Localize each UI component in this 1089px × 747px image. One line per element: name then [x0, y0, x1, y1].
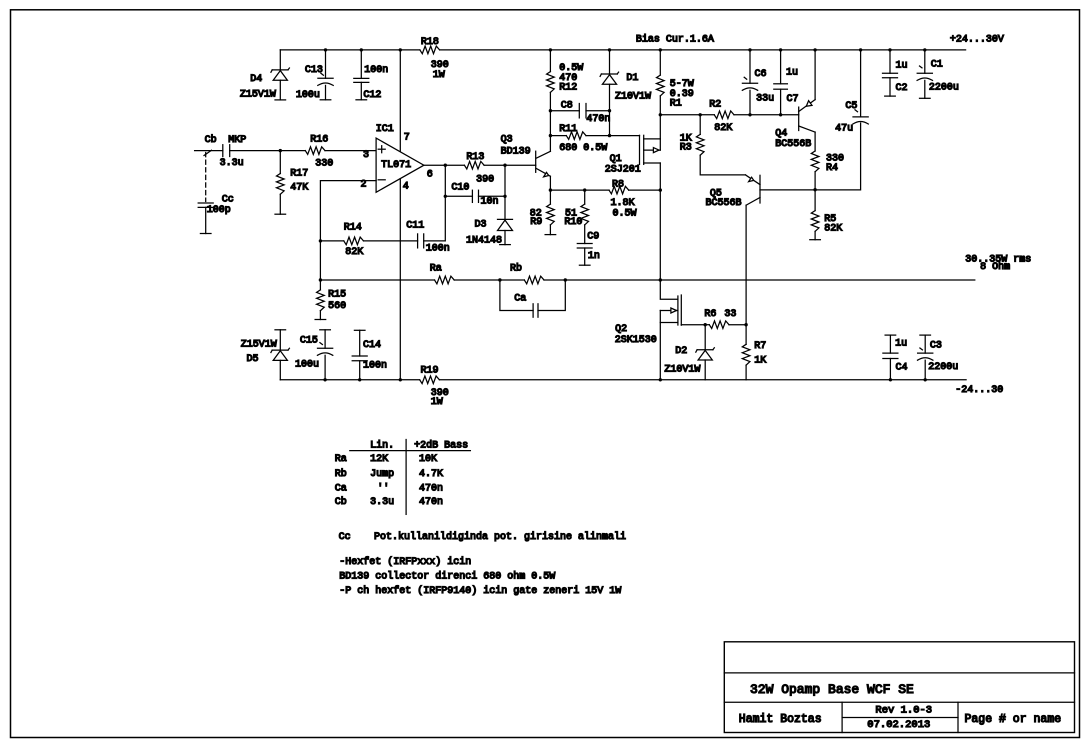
wire C12 bottom — [360, 82, 362, 99]
capacitor C12 — [354, 77, 369, 79]
node D3 tee — [503, 195, 506, 198]
wire Q1 drain down — [659, 163, 661, 280]
svg-text:1u: 1u — [895, 338, 907, 349]
Q1 body stub — [644, 149, 661, 151]
svg-text:Pot.kullanildiginda pot. giris: Pot.kullanildiginda pot. girisine alinma… — [374, 531, 626, 543]
wire R10 to C9 — [584, 225, 586, 244]
svg-text:R2: R2 — [709, 100, 721, 111]
transistor Q3 BD139 base bar — [535, 151, 537, 172]
wire R4 bottom — [814, 172, 816, 190]
Q4 emitter — [799, 100, 815, 112]
svg-text:C7: C7 — [787, 94, 799, 105]
wire pin 7 — [399, 50, 401, 152]
transistor Q5 BC556B base bar — [759, 175, 761, 203]
capacitor C8 — [578, 104, 580, 118]
wire R15 bottom — [319, 311, 321, 320]
node R12 rail — [549, 48, 552, 51]
wire Q5 base line — [760, 123, 861, 190]
svg-text:Q2: Q2 — [615, 324, 627, 335]
terminator C13 — [320, 99, 331, 101]
-V rail wire right — [439, 379, 966, 381]
svg-text:Ra: Ra — [335, 454, 347, 465]
Q4 collector — [799, 126, 815, 132]
terminator C15 — [320, 329, 331, 331]
resistor R12 — [547, 72, 555, 93]
node R10 top — [583, 188, 586, 191]
terminator C12 — [356, 99, 367, 101]
resistor R10 — [584, 190, 586, 204]
wire D3 branch top — [504, 165, 506, 196]
capacitor C9 — [577, 243, 592, 245]
resistor R6 — [709, 321, 729, 329]
svg-text:D1: D1 — [626, 73, 638, 84]
svg-text:470n: 470n — [419, 483, 443, 494]
svg-text:D2: D2 — [675, 346, 687, 357]
svg-text:R14: R14 — [344, 223, 362, 234]
wire C4 bottom — [889, 359, 891, 380]
wire R13 to Q3 base — [484, 164, 536, 166]
svg-text:Ca: Ca — [335, 483, 347, 494]
svg-text:4: 4 — [403, 181, 409, 192]
svg-text:-P ch hexfet (IRFP9140) icin g: -P ch hexfet (IRFP9140) icin gate zeneri… — [339, 585, 621, 597]
svg-text:BC556B: BC556B — [706, 198, 742, 209]
node R11 left — [549, 134, 552, 137]
svg-text:1n: 1n — [588, 251, 600, 262]
svg-text:330: 330 — [315, 158, 333, 169]
node C13 — [324, 48, 327, 51]
svg-text:C14: C14 — [363, 340, 381, 351]
svg-text:Cb: Cb — [205, 134, 217, 146]
svg-text:Lin.: Lin. — [370, 440, 394, 452]
Q1 body arrow — [653, 148, 659, 153]
node input junction — [279, 149, 282, 152]
svg-text:D3: D3 — [475, 220, 487, 231]
node R3 top — [699, 113, 702, 116]
node C6 bottom — [748, 113, 751, 116]
node C10 tee — [444, 195, 447, 198]
svg-text:Z15V1W: Z15V1W — [240, 90, 276, 101]
svg-text:33: 33 — [724, 309, 736, 320]
wire pin2 — [320, 181, 376, 241]
svg-text:Ca: Ca — [514, 294, 526, 305]
wire Q4 emitter to rail — [814, 50, 816, 100]
terminator R5 — [810, 239, 821, 241]
capacitor C11 — [417, 234, 419, 248]
terminator D5 — [275, 329, 286, 331]
svg-text:0.5W: 0.5W — [613, 209, 637, 220]
svg-text:470n: 470n — [419, 497, 443, 508]
capacitor C13 — [318, 77, 333, 79]
svg-text:R17: R17 — [290, 169, 308, 180]
svg-text:Cb: Cb — [335, 496, 347, 508]
C5 polarity tick — [855, 110, 858, 112]
wire R3 to Q5 emitter — [700, 155, 745, 175]
wire Q2 gate — [681, 324, 705, 326]
title block frame — [724, 642, 1074, 733]
capacitor Ca — [532, 304, 534, 317]
wire R2 right — [734, 114, 799, 116]
terminator C14 — [354, 329, 365, 331]
node Ca left — [498, 278, 501, 281]
resistor R15 — [319, 280, 321, 290]
node Ca right — [564, 278, 567, 281]
node R2 branch — [659, 113, 662, 116]
wire D3 bottom — [504, 231, 506, 245]
node C4 rail — [889, 378, 892, 381]
node C15 rail — [323, 378, 326, 381]
svg-text:3: 3 — [363, 150, 369, 161]
capacitor C6 — [748, 48, 751, 51]
svg-text:D5: D5 — [247, 354, 259, 365]
Q1 drain stub — [644, 162, 661, 164]
capacitor C7 — [779, 48, 782, 51]
svg-text:R8: R8 — [612, 179, 624, 190]
Q2 body arrow — [671, 308, 677, 313]
svg-text:R1: R1 — [670, 98, 682, 109]
C1 polarity tick — [920, 66, 923, 68]
node R9 top — [549, 188, 552, 191]
svg-text:560: 560 — [328, 301, 346, 312]
Q5 emitter arrow — [749, 177, 754, 181]
resistor R14 — [344, 237, 364, 245]
resistor R16 — [305, 147, 325, 155]
node D1 rail — [608, 48, 611, 51]
svg-text:1u: 1u — [786, 68, 798, 79]
svg-text:R7: R7 — [754, 341, 766, 352]
svg-text:82K: 82K — [714, 123, 732, 134]
svg-text:Rev 1.0-3: Rev 1.0-3 — [875, 704, 932, 716]
node opamp output — [444, 164, 447, 167]
wire Q5 collector down — [745, 205, 747, 325]
Q3 emitter arrow — [544, 172, 549, 177]
node D2 top — [704, 323, 707, 326]
wire Cc bottom — [205, 207, 207, 233]
svg-text:100u: 100u — [295, 360, 319, 371]
diode D4 Z15V1W — [272, 69, 288, 71]
diode D3 1N4148 — [498, 218, 513, 220]
wire feedback node down — [319, 241, 321, 280]
title block hline1 — [724, 672, 1074, 674]
diode D1 Z10V1W — [601, 73, 617, 75]
wire D2 bottom — [704, 360, 706, 380]
svg-text:10K: 10K — [419, 454, 437, 465]
svg-text:Ra: Ra — [430, 263, 442, 274]
capacitor Cb MKP — [222, 145, 224, 157]
svg-text:680 0.5W: 680 0.5W — [559, 143, 607, 154]
node D4 rail corner — [279, 50, 281, 70]
input tick — [204, 150, 212, 155]
svg-text:-Hexfet (IRFPxxx) icin: -Hexfet (IRFPxxx) icin — [339, 556, 471, 568]
svg-text:C3: C3 — [930, 341, 942, 352]
svg-text:100n: 100n — [364, 65, 388, 76]
svg-text:1u: 1u — [896, 61, 908, 72]
title block vline right — [957, 702, 959, 732]
svg-text:R18: R18 — [421, 37, 439, 48]
wire C10 left — [445, 195, 472, 197]
output line left — [320, 279, 434, 281]
wire C10 right — [479, 195, 506, 197]
resistor R5 — [814, 190, 816, 211]
svg-text:390: 390 — [476, 174, 494, 185]
capacitor C4 — [889, 335, 891, 353]
terminator C4 — [885, 334, 896, 336]
svg-text:Z10V1W: Z10V1W — [664, 364, 700, 375]
terminator R9 — [545, 234, 556, 236]
svg-text:Bias Cur.1.6A: Bias Cur.1.6A — [636, 34, 714, 46]
Q5 collector — [746, 198, 760, 206]
wire R5 bottom — [814, 231, 816, 239]
svg-text:Z10V1W: Z10V1W — [615, 91, 651, 102]
title block rev/date divider — [842, 717, 958, 719]
terminator C3 — [920, 334, 931, 336]
svg-text:47K: 47K — [290, 183, 308, 194]
resistor R13 — [464, 161, 484, 169]
resistor R18 — [420, 46, 440, 54]
svg-text:82K: 82K — [345, 247, 363, 258]
resistor R7 — [745, 325, 747, 345]
title block hline2 — [724, 701, 1074, 703]
capacitor C10 — [471, 190, 473, 202]
node output Q1/Q2 — [659, 278, 662, 281]
wire C2 bottom — [889, 78, 891, 96]
wire Q2 drain — [660, 280, 678, 299]
op-amp U1 TL071 — [376, 138, 424, 192]
svg-text:100n: 100n — [363, 361, 387, 372]
C13 polarity tick — [321, 73, 324, 75]
resistor R3 — [699, 115, 701, 135]
terminator Cc — [200, 233, 211, 235]
dashed wire to Cc — [205, 153, 207, 202]
resistor R9 — [549, 190, 551, 204]
svg-text:1W: 1W — [433, 70, 445, 81]
svg-text:3.3u: 3.3u — [220, 158, 244, 169]
transistor Q2 2SK1530 channel bar — [677, 296, 679, 325]
svg-text:BD139: BD139 — [501, 146, 531, 157]
svg-text:Page # or name: Page # or name — [965, 713, 1062, 726]
Q1 source stub — [644, 138, 661, 140]
svg-text:1N4148: 1N4148 — [466, 236, 502, 247]
svg-text:C2: C2 — [896, 83, 908, 94]
capacitor C1 — [924, 50, 926, 73]
wire R6 right — [729, 324, 746, 326]
wire R17 bottom — [279, 194, 281, 214]
node R4/R5/C5 — [813, 188, 816, 191]
Q3 collector — [536, 151, 550, 158]
wire R6 left — [705, 324, 709, 326]
svg-text:R15: R15 — [328, 290, 346, 301]
Q3 emitter — [536, 168, 550, 176]
svg-text:C8: C8 — [561, 101, 573, 112]
resistor R2 — [714, 111, 734, 119]
wire C14 bottom — [359, 361, 361, 380]
Q4 emitter arrow — [806, 101, 812, 107]
node R1 rail — [659, 48, 662, 51]
wire Ra to Ca node — [454, 279, 500, 281]
wire D5 bottom — [279, 360, 281, 379]
svg-text:Cc: Cc — [222, 194, 234, 205]
svg-text:R9: R9 — [530, 217, 542, 228]
wire pin 4 — [399, 179, 401, 380]
capacitor C3 — [924, 335, 926, 353]
svg-text:7: 7 — [404, 133, 410, 144]
wire R14 left — [320, 240, 343, 242]
wire Q4 collector to R4 — [814, 132, 816, 151]
svg-text:R12: R12 — [559, 82, 577, 93]
svg-text:D4: D4 — [250, 74, 262, 85]
svg-text:100p: 100p — [207, 205, 231, 216]
capacitor C14 — [359, 330, 361, 356]
resistor Rb — [524, 276, 544, 284]
node C8 left — [549, 109, 552, 112]
svg-text:R10: R10 — [564, 217, 582, 228]
opamp plus sign — [378, 148, 385, 150]
capacitor C15 — [324, 330, 326, 348]
wire R2 left — [660, 114, 714, 116]
wire Q3 emitter down — [549, 176, 551, 190]
wire node to R16 — [280, 150, 305, 152]
-V rail wire left — [280, 379, 419, 381]
resistor Ra — [435, 276, 455, 284]
svg-text:R11: R11 — [559, 124, 577, 135]
svg-text:+24...30V: +24...30V — [950, 35, 1004, 46]
wire R1 to Q1 source — [659, 96, 661, 150]
transistor Q1 2SJ201 gate bar — [639, 135, 641, 164]
wire C8 right — [586, 110, 610, 112]
wire emitter line — [550, 189, 609, 191]
wire C9 bottom — [584, 248, 586, 265]
node C2 rail — [888, 48, 891, 51]
Ca loop left — [500, 280, 533, 311]
wire Rb right — [544, 279, 565, 281]
svg-text:2200u: 2200u — [928, 362, 958, 373]
resistor R8 — [609, 186, 629, 194]
svg-text:2SJ201: 2SJ201 — [605, 165, 641, 176]
C15 polarity tick — [320, 343, 323, 345]
svg-text:BD139 collector direnci 680 oh: BD139 collector direnci 680 ohm 0.5W — [339, 571, 555, 583]
svg-text:TL071: TL071 — [381, 160, 411, 171]
wire C11 to output branch — [424, 165, 446, 241]
wire Q1 gate — [610, 135, 640, 137]
capacitor C5 — [853, 116, 868, 118]
wire C1 bottom — [924, 80, 926, 98]
wire opamp output — [424, 164, 465, 166]
terminator R15 — [315, 319, 326, 321]
svg-text:4.7K: 4.7K — [419, 469, 443, 480]
node feedback/output — [319, 278, 322, 281]
svg-text:R19: R19 — [421, 365, 439, 376]
svg-text:100n: 100n — [426, 244, 450, 255]
svg-text:R6: R6 — [704, 309, 716, 320]
wire C12 top — [360, 50, 362, 79]
node R14 — [319, 239, 322, 242]
Q2 source stub — [660, 322, 678, 324]
wire C13 top — [325, 50, 327, 78]
Q2 gate bar — [680, 295, 682, 325]
title block vline left — [841, 702, 843, 732]
svg-text:IC1: IC1 — [376, 124, 394, 135]
svg-text:C6: C6 — [755, 69, 767, 80]
terminator D3 — [500, 244, 511, 246]
node R7 top — [744, 323, 747, 326]
table vertical rule — [405, 440, 407, 515]
svg-text:C1: C1 — [931, 60, 943, 71]
wire R8 right — [629, 189, 661, 191]
diode D2 Z10V1W — [704, 325, 706, 350]
svg-text:-24...30: -24...30 — [955, 385, 1003, 396]
wire D1 top — [609, 50, 611, 74]
resistor R19 — [420, 376, 440, 384]
node C3 rail — [924, 378, 927, 381]
wire C8 left — [550, 110, 579, 112]
svg-text:100u: 100u — [296, 90, 320, 101]
diode D5 Z15V1W — [279, 330, 281, 350]
Q1 channel bar — [643, 135, 645, 164]
capacitor C2 — [889, 50, 891, 73]
terminator R17 — [275, 213, 286, 215]
svg-text:Rb: Rb — [335, 468, 347, 480]
svg-text:C11: C11 — [406, 221, 424, 232]
node Q4 emitter rail — [813, 48, 816, 51]
svg-text:R4: R4 — [826, 163, 838, 174]
node pin4 bottom rail — [399, 378, 402, 381]
svg-text:1.8K: 1.8K — [611, 198, 635, 209]
terminator C9 — [579, 264, 590, 266]
node C7 bottom — [779, 113, 782, 116]
+V rail wire left — [280, 49, 420, 51]
Ca loop right — [538, 280, 565, 311]
svg-text:82K: 82K — [824, 224, 842, 235]
Q5 emitter — [746, 175, 761, 185]
wire C15 bottom — [324, 355, 326, 380]
svg-text:C15: C15 — [300, 335, 318, 346]
svg-text:33u: 33u — [756, 94, 774, 105]
svg-text:6: 6 — [427, 169, 433, 180]
svg-text:2200u: 2200u — [929, 83, 959, 94]
svg-text:C12: C12 — [363, 90, 381, 101]
wire D4 bottom — [279, 80, 281, 100]
wire Rb left — [500, 279, 524, 281]
resistor R17 — [277, 174, 285, 195]
svg-text:Jump: Jump — [370, 469, 394, 480]
table header rule — [350, 450, 471, 452]
node pin7 — [399, 48, 402, 51]
svg-text:C4: C4 — [896, 363, 908, 374]
C6 polarity tick — [744, 77, 747, 79]
resistor R1 — [657, 75, 665, 96]
svg-text:R13: R13 — [466, 152, 484, 163]
svg-text:Q3: Q3 — [501, 135, 513, 146]
node Q2 source rail — [659, 378, 662, 381]
resistor R4 — [811, 151, 819, 172]
svg-text:C9: C9 — [587, 231, 599, 242]
wire R14 to C11 — [364, 240, 418, 242]
svg-text:1W: 1W — [431, 397, 443, 408]
node R13 right — [503, 164, 506, 167]
terminator D4 — [275, 99, 286, 101]
Q2 body stub — [660, 310, 678, 312]
wire input — [195, 150, 223, 152]
svg-text:3.3u: 3.3u — [370, 497, 394, 508]
wire C3 bottom — [924, 360, 926, 380]
terminator C1 — [920, 97, 931, 99]
output line right — [565, 279, 975, 281]
node C12 — [360, 48, 363, 51]
svg-text:2SK1530: 2SK1530 — [615, 335, 657, 346]
C3 polarity tick — [920, 348, 923, 350]
opamp minus sign — [378, 179, 385, 181]
wire D3 top — [504, 196, 506, 219]
svg-text:32W Opamp Base WCF SE: 32W Opamp Base WCF SE — [750, 682, 914, 697]
